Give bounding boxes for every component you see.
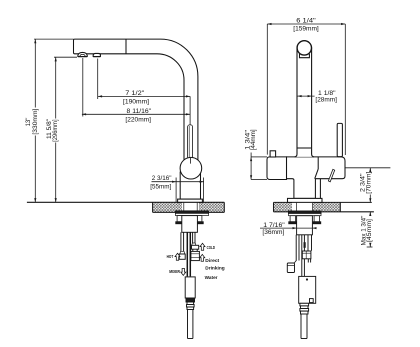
svg-text:13": 13" bbox=[26, 118, 32, 127]
svg-text:2 3/16": 2 3/16" bbox=[152, 175, 172, 182]
svg-text:[190mm]: [190mm] bbox=[123, 98, 149, 105]
svg-text:HOT: HOT bbox=[167, 254, 174, 259]
svg-text:Water: Water bbox=[205, 275, 218, 280]
svg-text:Direct: Direct bbox=[205, 258, 220, 263]
svg-text:[159mm]: [159mm] bbox=[293, 26, 319, 33]
svg-text:[44mm]: [44mm] bbox=[251, 129, 257, 150]
svg-text:11 5/8": 11 5/8" bbox=[47, 119, 53, 139]
svg-text:[45mm]: [45mm] bbox=[367, 219, 373, 242]
svg-text:[28mm]: [28mm] bbox=[315, 96, 337, 103]
svg-text:[55mm]: [55mm] bbox=[150, 183, 171, 190]
svg-text:6 1/4": 6 1/4" bbox=[296, 18, 316, 25]
svg-text:[36mm]: [36mm] bbox=[262, 229, 284, 236]
svg-text:[296mm]: [296mm] bbox=[53, 119, 59, 142]
svg-text:7 1/2": 7 1/2" bbox=[125, 90, 144, 97]
svg-text:[70mm]: [70mm] bbox=[367, 171, 373, 193]
svg-text:8 11/16": 8 11/16" bbox=[127, 108, 152, 115]
svg-text:[330mm]: [330mm] bbox=[33, 108, 39, 134]
svg-text:Drinking: Drinking bbox=[205, 265, 225, 270]
svg-text:COLD: COLD bbox=[207, 245, 215, 250]
svg-text:[220mm]: [220mm] bbox=[125, 116, 151, 123]
svg-text:MIXER: MIXER bbox=[169, 269, 181, 274]
